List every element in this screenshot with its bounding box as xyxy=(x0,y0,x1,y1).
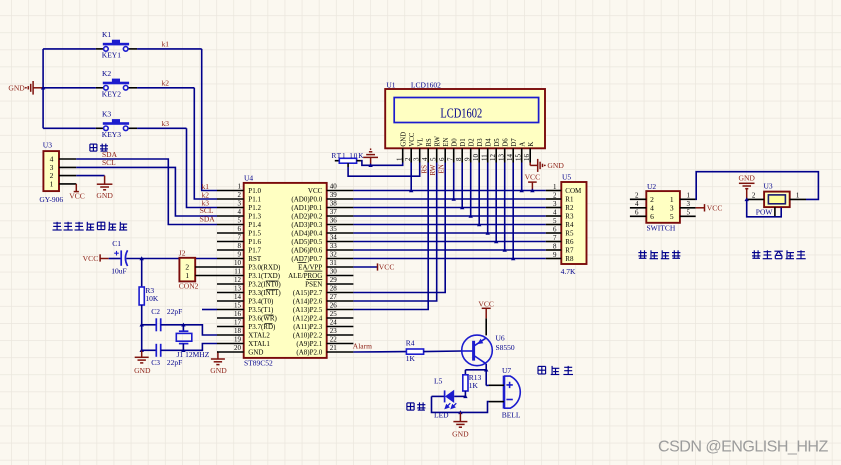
wire RST to R3 xyxy=(141,259,143,288)
svg-text:9: 9 xyxy=(238,251,242,259)
wire k3 right xyxy=(137,127,186,129)
text anjian (keys) xyxy=(90,144,108,152)
power input U3 POW xyxy=(764,192,790,208)
svg-text:C2: C2 xyxy=(151,307,160,316)
svg-text:20: 20 xyxy=(234,344,242,352)
svg-text:38: 38 xyxy=(330,200,338,208)
svg-text:U3: U3 xyxy=(764,181,773,190)
svg-text:31: 31 xyxy=(330,259,338,267)
junction xyxy=(460,205,464,209)
svg-text:10uF: 10uF xyxy=(111,267,126,276)
svg-text:K3: K3 xyxy=(102,110,111,119)
svg-text:BELL: BELL xyxy=(502,410,521,419)
svg-text:5: 5 xyxy=(687,208,691,216)
svg-text:VCC: VCC xyxy=(707,203,723,212)
crystal J1 xyxy=(182,325,184,331)
svg-text:10: 10 xyxy=(234,259,242,267)
text power input xyxy=(752,250,806,258)
svg-text:(AD3)P0.3: (AD3)P0.3 xyxy=(291,221,322,229)
svg-text:U1: U1 xyxy=(386,80,395,89)
junction xyxy=(41,86,45,90)
svg-text:GND: GND xyxy=(452,429,469,438)
wire LED loop to BELL minus xyxy=(432,396,490,412)
text buzzer xyxy=(538,366,573,375)
U5 pin numbers xyxy=(553,183,557,259)
switch K3 xyxy=(96,119,137,131)
svg-text:U4: U4 xyxy=(244,173,253,182)
svg-text:(AD4)P0.4: (AD4)P0.4 xyxy=(291,229,322,237)
svg-text:R6: R6 xyxy=(565,238,574,246)
wire Alarm to R4 xyxy=(353,351,406,353)
wire k3 left xyxy=(43,127,96,129)
svg-text:34: 34 xyxy=(330,234,338,242)
svg-text:8: 8 xyxy=(238,242,242,250)
svg-text:R7: R7 xyxy=(565,247,574,255)
svg-text:16: 16 xyxy=(523,154,531,162)
svg-text:GND: GND xyxy=(8,84,25,93)
svg-text:GND: GND xyxy=(738,174,755,183)
wire LCD A pin15 to VCC rail xyxy=(521,163,523,191)
svg-text:D7: D7 xyxy=(511,138,518,147)
svg-text:3: 3 xyxy=(238,200,242,208)
junction xyxy=(368,163,372,167)
svg-text:15: 15 xyxy=(515,154,523,162)
wire k2 right xyxy=(137,87,194,89)
svg-text:P3.7(RD): P3.7(RD) xyxy=(248,323,276,331)
wire U3 POW ground loop xyxy=(747,199,782,216)
svg-text:ST89C52: ST89C52 xyxy=(244,359,273,368)
wire SCL from U3 pin3 xyxy=(76,167,217,216)
wires U4 P0 bus to U5 xyxy=(353,191,545,259)
svg-text:RW: RW xyxy=(435,135,442,146)
junction xyxy=(181,323,185,327)
U2 pins right xyxy=(680,199,696,216)
svg-text:(A12)P2.4: (A12)P2.4 xyxy=(293,314,323,322)
wire k2 to U4 pin2 xyxy=(194,88,217,199)
junction xyxy=(520,188,524,192)
svg-text:7: 7 xyxy=(553,234,557,242)
svg-text:7: 7 xyxy=(447,157,455,161)
ground R3 xyxy=(135,350,149,363)
ground RT1 xyxy=(363,149,378,165)
svg-text:1: 1 xyxy=(687,191,691,199)
svg-text:(A10)P2.2: (A10)P2.2 xyxy=(293,331,323,339)
svg-text:8: 8 xyxy=(553,242,557,250)
resistor network U5 4.7K xyxy=(561,182,586,264)
svg-text:12: 12 xyxy=(234,276,242,284)
svg-text:3: 3 xyxy=(413,157,421,161)
U5 pins xyxy=(546,191,562,259)
transistor U6 S8550 xyxy=(462,335,493,366)
svg-text:K: K xyxy=(528,142,535,147)
svg-text:EN: EN xyxy=(437,164,445,173)
svg-text:1: 1 xyxy=(185,271,189,280)
U2 pin names xyxy=(650,195,674,221)
svg-text:D2: D2 xyxy=(469,138,476,147)
svg-text:P1.0: P1.0 xyxy=(248,187,261,195)
svg-text:U7: U7 xyxy=(502,366,511,375)
svg-text:KEY3: KEY3 xyxy=(102,130,121,139)
svg-text:C1: C1 xyxy=(112,239,121,248)
svg-text:LCD1602: LCD1602 xyxy=(411,80,441,89)
svg-text:(A9)P2.1: (A9)P2.1 xyxy=(296,340,322,348)
svg-text:VCC: VCC xyxy=(525,173,541,182)
wire k1 to U4 pin1 xyxy=(202,49,217,191)
svg-text:D0: D0 xyxy=(452,138,459,147)
ground U3 POW xyxy=(739,183,755,199)
junction xyxy=(511,256,515,260)
wire C2 to XTAL2 xyxy=(183,325,217,335)
svg-text:27: 27 xyxy=(330,293,338,301)
svg-text:P3.2(INT0): P3.2(INT0) xyxy=(248,280,281,288)
wire U4 P3.5 stub xyxy=(202,309,217,311)
svg-text:6: 6 xyxy=(650,212,654,221)
svg-text:22pF: 22pF xyxy=(167,358,182,367)
capacitor C3 xyxy=(142,349,157,351)
svg-text:R4: R4 xyxy=(406,339,415,348)
ground LCD K pin16 xyxy=(530,159,542,172)
svg-text:XTAL2: XTAL2 xyxy=(248,331,270,339)
wires LCD data to P0 bus xyxy=(454,163,514,259)
svg-text:11: 11 xyxy=(481,154,489,161)
svg-text:GND: GND xyxy=(248,348,263,356)
connector J2 CON2 xyxy=(179,258,195,282)
U4 right pins xyxy=(327,191,354,353)
switch U2 xyxy=(646,191,680,223)
buzzer U7 BELL xyxy=(504,376,520,409)
svg-text:D5: D5 xyxy=(494,138,501,147)
svg-text:POW: POW xyxy=(756,208,774,217)
svg-text:17: 17 xyxy=(234,319,242,327)
svg-text:6: 6 xyxy=(238,225,242,233)
U1 pin numbers xyxy=(396,154,531,162)
svg-text:RS: RS xyxy=(426,138,433,147)
junction xyxy=(503,248,507,252)
svg-text:5: 5 xyxy=(553,217,557,225)
svg-text:10K: 10K xyxy=(145,294,159,303)
svg-text:GND: GND xyxy=(134,366,151,375)
potentiometer RT1 xyxy=(335,160,340,162)
svg-text:K2: K2 xyxy=(102,69,111,78)
resistor R13 xyxy=(464,370,466,375)
junction xyxy=(486,231,490,235)
J2 pin names xyxy=(185,263,189,281)
svg-text:Alarm: Alarm xyxy=(353,342,372,351)
svg-text:2: 2 xyxy=(553,191,557,199)
svg-text:RW: RW xyxy=(429,164,437,175)
svg-text:18: 18 xyxy=(234,327,242,335)
svg-text:1: 1 xyxy=(796,192,800,200)
wire LCD VCC pin2 xyxy=(410,163,412,191)
power VCC on rail xyxy=(528,182,537,190)
sensor U3 GY-906 xyxy=(43,151,59,191)
ground U3 xyxy=(97,176,113,190)
svg-text:36: 36 xyxy=(330,217,338,225)
ground U4 GND pin xyxy=(216,351,219,353)
junction xyxy=(530,188,534,192)
svg-text:(AD1)P0.1: (AD1)P0.1 xyxy=(291,204,322,212)
junction xyxy=(494,239,498,243)
U4 overlines xyxy=(265,263,323,324)
svg-text:4: 4 xyxy=(635,200,639,208)
U3 pins xyxy=(59,159,76,184)
ground keys xyxy=(28,81,42,95)
U1 pin names xyxy=(401,132,535,147)
text power switch xyxy=(638,250,680,258)
wire k2 left xyxy=(43,87,96,89)
svg-text:RS: RS xyxy=(420,165,428,174)
power VCC at U2 xyxy=(696,204,705,211)
svg-text:k3: k3 xyxy=(162,119,170,128)
svg-text:P1.2: P1.2 xyxy=(248,204,261,212)
svg-text:K1: K1 xyxy=(102,30,111,39)
wire C3 to XTAL1 xyxy=(183,344,217,351)
U4 pin numbers right xyxy=(330,183,338,353)
U2 pins left xyxy=(630,199,646,216)
svg-text:VCC: VCC xyxy=(69,191,85,200)
svg-text:13: 13 xyxy=(234,285,242,293)
svg-text:VL: VL xyxy=(418,138,425,147)
svg-text:VCC: VCC xyxy=(409,132,416,146)
svg-text:9: 9 xyxy=(553,251,557,259)
svg-text:D6: D6 xyxy=(503,138,510,147)
svg-text:P1.6: P1.6 xyxy=(248,238,261,246)
capacitor C2 xyxy=(142,324,157,326)
wire k3 to U4 pin3 xyxy=(187,128,218,207)
junction xyxy=(484,368,488,372)
svg-text:k2: k2 xyxy=(162,79,170,88)
svg-text:U6: U6 xyxy=(496,333,505,342)
svg-text:(AD6)P0.6: (AD6)P0.6 xyxy=(291,246,322,254)
svg-text:PSEN: PSEN xyxy=(305,280,322,288)
svg-text:P3.5(T1): P3.5(T1) xyxy=(248,306,274,314)
svg-text:(A11)P2.3: (A11)P2.3 xyxy=(293,323,323,331)
wire collector to R13 xyxy=(465,369,486,371)
svg-text:k1: k1 xyxy=(162,40,170,49)
svg-text:(A15)P2.7: (A15)P2.7 xyxy=(293,289,323,297)
svg-text:7: 7 xyxy=(238,234,242,242)
svg-text:(A13)P2.5: (A13)P2.5 xyxy=(293,306,323,314)
svg-text:(AD7)P0.7: (AD7)P0.7 xyxy=(291,255,322,263)
svg-text:LCD1602: LCD1602 xyxy=(440,106,482,121)
svg-text:4: 4 xyxy=(421,157,429,161)
J2 pins xyxy=(195,267,217,276)
svg-text:CSDN @ENGLISH_HHZ: CSDN @ENGLISH_HHZ xyxy=(658,438,828,456)
svg-text:P3.4(T0): P3.4(T0) xyxy=(248,297,274,305)
svg-text:VCC: VCC xyxy=(308,187,323,195)
svg-text:D4: D4 xyxy=(486,138,493,147)
svg-text:P1.4: P1.4 xyxy=(248,221,261,229)
svg-text:37: 37 xyxy=(330,208,338,216)
wire R4 to base xyxy=(424,350,462,353)
svg-text:COM: COM xyxy=(565,187,582,195)
wire RT1 wiper to LCD VL xyxy=(348,163,420,177)
svg-text:2: 2 xyxy=(404,157,412,161)
U4 left pins xyxy=(217,191,244,353)
svg-text:3: 3 xyxy=(553,200,557,208)
svg-text:P3.6(WR): P3.6(WR) xyxy=(248,314,277,322)
svg-text:15: 15 xyxy=(234,302,242,310)
text negative pole xyxy=(407,402,426,410)
junction xyxy=(463,394,467,398)
U1 pins xyxy=(403,148,531,162)
svg-text:(AD2)P0.2: (AD2)P0.2 xyxy=(291,212,322,220)
text infrared temperature sensor xyxy=(53,222,128,230)
svg-text:12: 12 xyxy=(489,154,497,162)
wire U2 pin1 to U3 POW xyxy=(696,172,819,200)
lcd U1 LCD1602 xyxy=(385,89,545,148)
svg-text:EA/VPP: EA/VPP xyxy=(298,263,322,271)
svg-text:A: A xyxy=(520,142,527,147)
svg-text:GND: GND xyxy=(401,132,408,147)
svg-text:L5: L5 xyxy=(434,377,443,386)
power VCC at C1 xyxy=(100,254,109,261)
svg-text:R4: R4 xyxy=(565,221,574,229)
U5 pin names xyxy=(565,187,582,263)
svg-text:1: 1 xyxy=(50,180,54,189)
svg-text:10: 10 xyxy=(472,154,480,162)
svg-text:33: 33 xyxy=(330,242,338,250)
LED arrows xyxy=(445,403,456,408)
resistor R4 xyxy=(406,349,423,354)
svg-text:5: 5 xyxy=(238,217,242,225)
svg-text:C3: C3 xyxy=(151,358,160,367)
svg-text:5: 5 xyxy=(430,157,438,161)
switch K1 xyxy=(96,40,137,52)
junction xyxy=(477,222,481,226)
svg-text:4.7K: 4.7K xyxy=(561,267,576,276)
junction xyxy=(745,197,749,201)
svg-text:P1.1: P1.1 xyxy=(248,195,261,203)
junction xyxy=(469,214,473,218)
wire RT1 to LCD pin1 xyxy=(361,161,403,166)
svg-text:P1.5: P1.5 xyxy=(248,229,261,237)
U3 POW pins xyxy=(747,198,764,200)
wire LCD EN to U4 P2.7 xyxy=(353,163,445,293)
svg-text:3: 3 xyxy=(687,200,691,208)
svg-text:32: 32 xyxy=(330,251,338,259)
svg-text:1: 1 xyxy=(396,157,404,161)
capacitor C1 xyxy=(109,258,122,260)
svg-text:(A8)P2.0: (A8)P2.0 xyxy=(296,348,322,356)
svg-text:U3: U3 xyxy=(43,141,52,150)
mcu U4 ST89C52 xyxy=(244,183,327,358)
svg-text:13: 13 xyxy=(498,154,506,162)
svg-text:VCC: VCC xyxy=(83,254,99,263)
svg-text:22: 22 xyxy=(330,336,338,344)
wire SDA from U3 pin4 xyxy=(76,159,217,225)
svg-text:40: 40 xyxy=(330,183,338,191)
wire U3 pin2 to ground xyxy=(76,175,104,177)
svg-text:VCC: VCC xyxy=(478,300,494,309)
wire k1 right xyxy=(137,48,202,50)
resistor R3 xyxy=(139,287,144,305)
svg-text:(AD0)P0.0: (AD0)P0.0 xyxy=(291,195,322,203)
svg-text:R3: R3 xyxy=(565,213,574,221)
wire collector to BELL plus xyxy=(486,384,489,386)
svg-text:R2: R2 xyxy=(565,204,574,212)
svg-text:24: 24 xyxy=(330,319,338,327)
wire collector down xyxy=(485,364,487,386)
svg-text:KEY2: KEY2 xyxy=(102,90,121,99)
svg-text:1K: 1K xyxy=(406,354,416,363)
svg-text:39: 39 xyxy=(330,191,338,199)
junction xyxy=(452,197,456,201)
U3 pin numbers xyxy=(50,155,54,189)
svg-text:J1 12MHZ: J1 12MHZ xyxy=(177,350,210,359)
svg-text:D3: D3 xyxy=(477,138,484,147)
svg-text:S8550: S8550 xyxy=(496,343,515,352)
svg-text:2: 2 xyxy=(238,191,242,199)
svg-text:16: 16 xyxy=(234,310,242,318)
svg-text:RT1 10K: RT1 10K xyxy=(332,152,365,160)
svg-text:VCC: VCC xyxy=(379,263,395,272)
svg-text:EN: EN xyxy=(443,137,450,146)
wire key left bus xyxy=(42,49,44,128)
power VCC at U6 xyxy=(485,318,487,335)
svg-text:4: 4 xyxy=(553,208,557,216)
junction xyxy=(140,323,144,327)
svg-text:28: 28 xyxy=(330,285,338,293)
junction xyxy=(140,348,144,352)
svg-text:11: 11 xyxy=(234,268,241,276)
svg-text:GND: GND xyxy=(96,191,113,200)
svg-text:R5: R5 xyxy=(565,230,574,238)
svg-text:1: 1 xyxy=(238,183,242,191)
svg-text:P3.0(RXD): P3.0(RXD) xyxy=(248,263,281,271)
svg-text:35: 35 xyxy=(330,225,338,233)
svg-text:U5: U5 xyxy=(562,173,571,182)
svg-text:SWITCH: SWITCH xyxy=(647,224,676,233)
power VCC at EA/VPP xyxy=(353,266,377,268)
svg-text:25: 25 xyxy=(330,310,338,318)
svg-text:6: 6 xyxy=(438,157,446,161)
svg-text:U2: U2 xyxy=(647,182,656,191)
svg-text:6: 6 xyxy=(635,208,639,216)
svg-text:GND: GND xyxy=(210,366,227,375)
svg-text:26: 26 xyxy=(330,302,338,310)
svg-text:6: 6 xyxy=(553,225,557,233)
svg-text:2: 2 xyxy=(752,192,756,200)
svg-text:4: 4 xyxy=(238,208,242,216)
svg-text:J2: J2 xyxy=(179,249,186,258)
svg-text:19: 19 xyxy=(234,336,242,344)
svg-text:8: 8 xyxy=(455,157,463,161)
svg-text:GND: GND xyxy=(547,161,564,170)
U4 pin names xyxy=(248,187,322,357)
svg-text:2: 2 xyxy=(635,191,639,199)
svg-text:9: 9 xyxy=(464,157,472,161)
svg-text:KEY1: KEY1 xyxy=(102,51,121,60)
junction xyxy=(409,188,413,192)
junction xyxy=(181,348,185,352)
svg-text:GY-906: GY-906 xyxy=(39,195,63,204)
svg-text:D1: D1 xyxy=(460,138,467,146)
switch K2 xyxy=(96,79,137,91)
svg-text:RST: RST xyxy=(248,255,262,263)
wire LCD RS to U4 P2.5 xyxy=(353,163,428,310)
svg-text:P1.3: P1.3 xyxy=(248,212,261,220)
wire k1 left xyxy=(43,48,96,50)
svg-text:23: 23 xyxy=(330,327,338,335)
svg-text:R8: R8 xyxy=(565,255,574,263)
svg-text:XTAL1: XTAL1 xyxy=(248,340,270,348)
svg-text:1: 1 xyxy=(553,183,557,191)
svg-text:P3.1(TXD): P3.1(TXD) xyxy=(248,272,280,280)
svg-text:SCL: SCL xyxy=(102,158,116,167)
junction xyxy=(140,256,144,260)
wire C1 to U4 RST xyxy=(126,258,217,260)
